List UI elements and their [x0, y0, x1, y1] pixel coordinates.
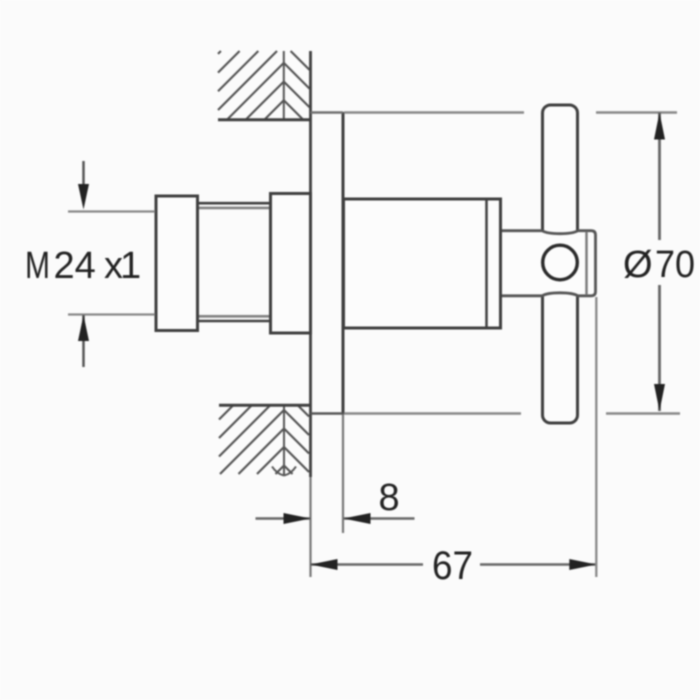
svg-text:1: 1: [120, 245, 141, 287]
svg-text:70: 70: [655, 244, 695, 286]
svg-text:67: 67: [432, 544, 473, 588]
svg-text:8: 8: [379, 477, 400, 519]
svg-text:M: M: [25, 245, 50, 287]
svg-text:24: 24: [54, 245, 96, 287]
svg-text:Ø: Ø: [623, 244, 653, 286]
